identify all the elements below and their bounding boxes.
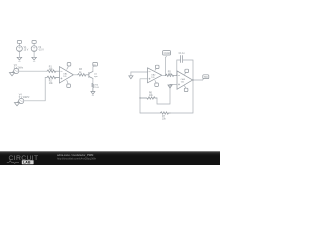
OA3 + input wire to ground: [170, 83, 177, 85]
ground at V3 left: [9, 73, 14, 76]
wire OA2 out: [162, 74, 166, 76]
junction R6 left: [139, 97, 140, 98]
OA1 V- power flag: [67, 80, 71, 87]
wire Q1 collector up: [92, 67, 94, 72]
OA1 text: [63, 72, 68, 78]
OA2 text: [151, 73, 156, 79]
svg-text:15 V: 15 V: [24, 50, 29, 52]
wire gnd to OA2 - input: [131, 71, 148, 73]
op-amp OA3: [177, 71, 193, 89]
R7 label: [162, 116, 167, 121]
ground flag at OA2 inverting input: [129, 72, 133, 79]
sine source V4: [17, 98, 24, 103]
resistor R5 label: [168, 71, 173, 76]
svg-text:C1 1n: C1 1n: [179, 53, 186, 55]
resistor R2: [47, 76, 59, 79]
positive feedback vertical: [139, 79, 141, 113]
svg-text:CUAD: CUAD: [164, 52, 171, 55]
resistor R1 label: [49, 66, 54, 71]
wire continues down from + node: [157, 84, 170, 104]
net flag stem above OA2 out: [165, 57, 167, 75]
transistor Q1: [88, 71, 93, 78]
ground under R4: [91, 92, 95, 96]
wire OA2 + input from feedback node: [140, 78, 148, 80]
OA2 V+ power flag: [155, 65, 159, 70]
OA3 V+ power flag: [185, 69, 189, 74]
OA3 V- power flag: [184, 86, 188, 92]
OA3 text: [181, 78, 186, 84]
bottom wire right part: [171, 80, 193, 113]
resistor R5: [166, 74, 177, 76]
op-amp OA2: [148, 68, 162, 83]
V1 value label: [24, 47, 29, 52]
resistor R1: [47, 70, 59, 73]
svg-text:http://circuitlab.com/c4vz28pq: http://circuitlab.com/c4vz28pq2k8e: [57, 157, 97, 161]
net flag CUAD: [163, 51, 171, 58]
wire C1 to right leg: [183, 60, 193, 80]
op-amp OA1: [59, 67, 73, 83]
ground under V1: [17, 57, 22, 61]
net flag on V2 top: [32, 41, 36, 44]
Q1 label: [94, 74, 98, 79]
voltage source V1: [17, 43, 23, 57]
svg-text:-15 V: -15 V: [38, 50, 44, 52]
capacitor C1: [181, 56, 183, 63]
svg-text:TRI: TRI: [204, 76, 208, 79]
ground under V2: [32, 57, 37, 61]
resistor R2 label: [49, 81, 54, 86]
resistor R3 label: [79, 69, 83, 74]
ground at V4 left: [14, 103, 19, 106]
CircuitLab logo: [7, 155, 39, 164]
sine source V3: [12, 68, 19, 73]
junction at OA3 out: [192, 79, 193, 80]
resistor R6: [140, 97, 157, 99]
net flag TRI: [203, 75, 209, 80]
R4 label: [95, 85, 99, 90]
OA1 V+ power flag: [67, 63, 71, 70]
voltage source V2: [31, 43, 37, 57]
svg-text:adria.cano / modulador_PWM: adria.cano / modulador_PWM: [57, 153, 93, 157]
junction at OA3 - input: [176, 75, 177, 76]
wire OA1 out to R3: [73, 74, 77, 76]
sine source V4 label: [19, 94, 30, 99]
wire Q1 emitter down: [92, 78, 94, 83]
resistor R7: [160, 112, 170, 114]
resistor R3: [78, 74, 88, 77]
resistor R6 label: [149, 93, 154, 98]
wire OA3 out to flag: [193, 79, 203, 81]
net flag on V1 top: [17, 41, 21, 44]
sine source V3 label: [14, 65, 24, 70]
ground on OA3 + input: [168, 85, 172, 88]
C1 label: [179, 53, 186, 55]
wire V4 to R2: [24, 77, 47, 100]
supply net flag above Q1: [93, 62, 98, 66]
svg-text:LAB: LAB: [23, 161, 31, 165]
V2 value label: [38, 47, 44, 52]
OA2 V- power flag: [155, 81, 159, 87]
footer bar: [0, 151, 220, 165]
top feedback: wire up and across: [177, 60, 180, 75]
junction at OA2 out: [165, 75, 166, 76]
wire V3 to R1: [19, 70, 47, 72]
resistor R4 (vertical): [92, 83, 94, 91]
bottom wire left part: [140, 112, 160, 114]
